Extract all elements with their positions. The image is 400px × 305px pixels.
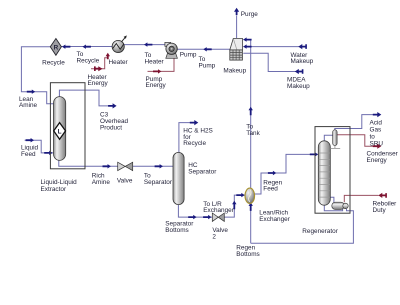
wire To-Heater (pump to heater) [124,44,165,46]
wire Liquid-Feed [25,140,54,153]
arrow rich amine (right) [103,164,111,168]
svg-text:Heater: Heater [145,58,165,65]
svg-text:Gas: Gas [370,127,382,134]
arrow into valve2 (right) [203,215,211,219]
arrow up to-tank (mid) [249,107,253,115]
svg-text:Energy: Energy [88,80,109,87]
terminal condenser energy (bar+head pointing right) [373,144,382,149]
svg-text:Recycle: Recycle [183,140,206,147]
valve (bowtie) [118,162,133,170]
arrow pump energy (right) [153,69,161,73]
arrow liquid feed (right) [26,138,34,142]
svg-text:Pump: Pump [180,52,197,59]
svg-text:Amine: Amine [92,179,111,186]
arrow mid to-heater (left) [144,42,152,46]
terminal MDEA makeup (bar+head pointing left) [295,69,304,74]
wire Purge [236,16,238,39]
svg-text:Feed: Feed [263,186,278,193]
svg-text:Bottoms: Bottoms [236,251,259,258]
energy wire Condenser-Energy [337,135,374,146]
svg-text:Bottoms: Bottoms [165,227,188,234]
arrow mid to-recycle (left) [83,45,91,49]
wire To-Pump (makeup to pump) [177,48,230,50]
svg-text:Energy: Energy [367,157,388,164]
arrow into makeup top (left) [243,37,251,41]
arrow lean amine (right) [27,90,35,94]
arrow up to exchanger (on x=234.3) [232,201,236,209]
wire Lean-Amine (recycle to extractor) [21,47,53,104]
wire Acid-Gas [335,115,374,130]
svg-text:Makeup: Makeup [287,83,310,90]
energy wires [91,54,379,202]
svg-text:Amine: Amine [19,102,38,109]
arrow to separator (right) [155,164,163,168]
svg-text:Regenerator: Regenerator [302,228,338,235]
valve 2 (bowtie) [212,213,224,221]
arrow regen feed (right) [268,171,276,175]
wire Separator-Bottoms [178,204,212,217]
svg-text:Extractor: Extractor [41,186,67,193]
wire To-Separator (valve to HC separator) [133,165,173,167]
wire Water-Makeup [243,46,306,48]
svg-text:Valve: Valve [117,178,133,185]
wire Regen-Feed (exchanger to regenerator) [254,154,317,194]
wire regen column side draw to reboiler [330,197,334,202]
wire regen column overhead to condenser [324,135,332,141]
svg-text:Duty: Duty [373,207,387,214]
svg-text:Pump: Pump [199,63,216,70]
arrow mid to-pump (left) [203,47,211,51]
svg-text:to: to [370,134,376,141]
arrow into regenerator (right) [310,152,318,156]
reboiler vessel [332,202,348,209]
svg-text:Acid: Acid [370,120,383,127]
energy wire Heater-Energy [91,54,108,69]
terminal reboiler duty (head pointing left + bar) [378,193,387,198]
condenser vessel [330,130,340,149]
wire To-LR-Exchanger (valve2 to exchanger) [224,195,245,217]
svg-text:Tank: Tank [246,130,260,137]
arrow into exchanger (right) [236,193,244,197]
svg-text:Separator: Separator [144,179,173,186]
terminal HC-H2S (bar+head pointing right) [190,120,199,125]
terminal purge (bar+head pointing up) [234,8,239,15]
wire To-Tank (regen bottoms up to makeup) [243,40,250,244]
arrow separator bottoms (right) [188,215,196,219]
wire To-Recycle (heater to recycle) [62,46,113,48]
energy wire Reboiler-Duty [344,195,378,202]
arrow up to-tank (below exchanger) [249,203,253,211]
pump [165,42,178,58]
arrow heater energy up into heater [106,53,110,59]
terminal heater energy (bar+head pointing right) [94,66,102,71]
svg-text:SRU: SRU [370,141,384,148]
regenerator sub-flowsheet box [315,127,350,214]
svg-text:Makeup: Makeup [291,58,314,65]
regenerator column [318,141,330,205]
extractor sub-flowsheet box [50,83,85,169]
svg-text:Purge: Purge [241,11,258,18]
svg-text:Product: Product [100,124,122,131]
arrow liquid feed into column (right) [44,151,52,155]
svg-text:Exchanger: Exchanger [203,207,234,214]
liquid-liquid extractor column [53,97,65,161]
svg-text:Recycle: Recycle [77,57,100,64]
wire Regen-Bottoms [251,209,354,243]
energy wire Pump-Energy [148,58,175,71]
svg-text:2: 2 [212,234,216,241]
material stream arrows (mid-line, dark navy) [26,8,382,220]
wire regen column bottom to reboiler [324,205,342,211]
svg-text:L: L [58,129,62,136]
energy stream arrows (maroon) [94,53,387,198]
HC separator column [173,152,184,204]
lean/rich exchanger [245,188,255,203]
wire Rich-Amine [59,160,118,166]
svg-text:R: R [54,45,59,52]
svg-text:Exchanger: Exchanger [259,216,290,223]
svg-text:Feed: Feed [21,151,36,158]
recycle block R [50,39,61,56]
terminal C3 overhead (bar+head pointing right) [108,103,117,108]
svg-text:Recycle: Recycle [42,60,65,67]
extractor logo diamond L [54,123,66,140]
arrow into recycle (left) [62,45,70,49]
svg-text:Separator: Separator [188,168,217,175]
makeup unit [230,38,243,60]
arrow water makeup into unit (left) [243,44,251,48]
terminal acid gas (bar+head pointing right) [373,112,382,117]
svg-text:Makeup: Makeup [223,67,246,74]
svg-text:Energy: Energy [146,82,167,89]
terminal water makeup (bar+head pointing left) [298,44,307,49]
heater circle [112,35,127,52]
svg-text:Heater: Heater [109,59,129,66]
wire C3-Overhead [59,90,109,106]
wire MDEA-Makeup [243,53,302,71]
wire HC-H2S-Recycle [179,123,191,153]
